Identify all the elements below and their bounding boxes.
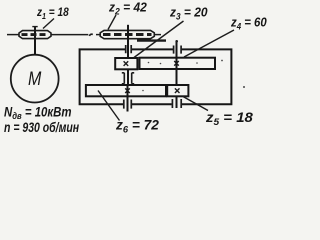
svg-text:n = 930 об/мин: n = 930 об/мин bbox=[4, 119, 80, 135]
leader z4 bbox=[184, 30, 234, 57]
leader z6 bbox=[98, 91, 120, 121]
chain line short segment bbox=[96, 34, 101, 36]
leader z1 bbox=[43, 19, 54, 29]
bearing shaft III bottom bbox=[124, 100, 132, 109]
stray line under sprocket z2 bbox=[137, 39, 166, 41]
svg-text:z2 = 42: z2 = 42 bbox=[108, 0, 147, 16]
svg-text:M: M bbox=[28, 68, 41, 90]
noise dot right of gear z4 bbox=[221, 60, 223, 62]
motor shaft (vertical, x=35) bbox=[34, 27, 36, 55]
shaft II top blob bbox=[175, 40, 178, 43]
gear z5 bbox=[167, 85, 188, 96]
svg-text:z4 = 60: z4 = 60 bbox=[230, 15, 267, 32]
gear z3 shaft cross bbox=[124, 61, 129, 66]
sprocket z1 bbox=[19, 31, 51, 39]
gear z6 shaft cross bbox=[125, 88, 130, 93]
bearing shaft I top bbox=[126, 45, 132, 53]
svg-text:z1 = 18: z1 = 18 bbox=[36, 6, 69, 21]
bearing shaft II bottom bbox=[172, 99, 181, 108]
noise dot inside gear z4 b bbox=[160, 63, 162, 65]
noise dot inside gear z4 c bbox=[196, 62, 198, 64]
svg-text:z3 = 20: z3 = 20 bbox=[169, 5, 208, 22]
gear z5 shaft cross bbox=[175, 88, 180, 93]
gear z4 shaft cross bbox=[174, 61, 179, 66]
middle bearing between shaft I and shaft III bbox=[122, 73, 134, 84]
chain line middle segment bbox=[51, 34, 88, 36]
shaft I (input, x=128) bbox=[127, 25, 129, 84]
noise dot right of housing bbox=[243, 86, 245, 88]
motor M1 circle bbox=[11, 55, 59, 103]
noise dot inside gear z6 bbox=[142, 90, 144, 92]
gear z6 bbox=[86, 85, 166, 96]
sprocket z2 bbox=[100, 30, 154, 38]
noise dot inside gear z4 a bbox=[148, 62, 150, 64]
svg-text:z6 = 72: z6 = 72 bbox=[115, 116, 159, 134]
shaft III (output, x=127.5) bbox=[127, 85, 129, 112]
gear z3 bbox=[115, 58, 137, 69]
leader z2 bbox=[108, 15, 116, 30]
bearing shaft II top bbox=[174, 46, 182, 54]
chain line right stub bbox=[154, 34, 161, 36]
sprocket z1 hub dashes bbox=[22, 33, 49, 36]
shaft II (intermediate, x=176.5) bbox=[176, 41, 178, 109]
chain dash (dash-dot) bbox=[89, 34, 93, 36]
chain line left segment bbox=[7, 34, 20, 36]
motor shaft end tick bbox=[32, 26, 37, 28]
sprocket z2 hub dashes bbox=[103, 33, 152, 36]
gear z4 bbox=[140, 58, 216, 69]
leader z5 bbox=[183, 97, 208, 111]
leader z3 bbox=[134, 21, 184, 58]
gearbox housing bbox=[80, 49, 232, 104]
svg-text:z5 = 18: z5 = 18 bbox=[205, 110, 254, 127]
